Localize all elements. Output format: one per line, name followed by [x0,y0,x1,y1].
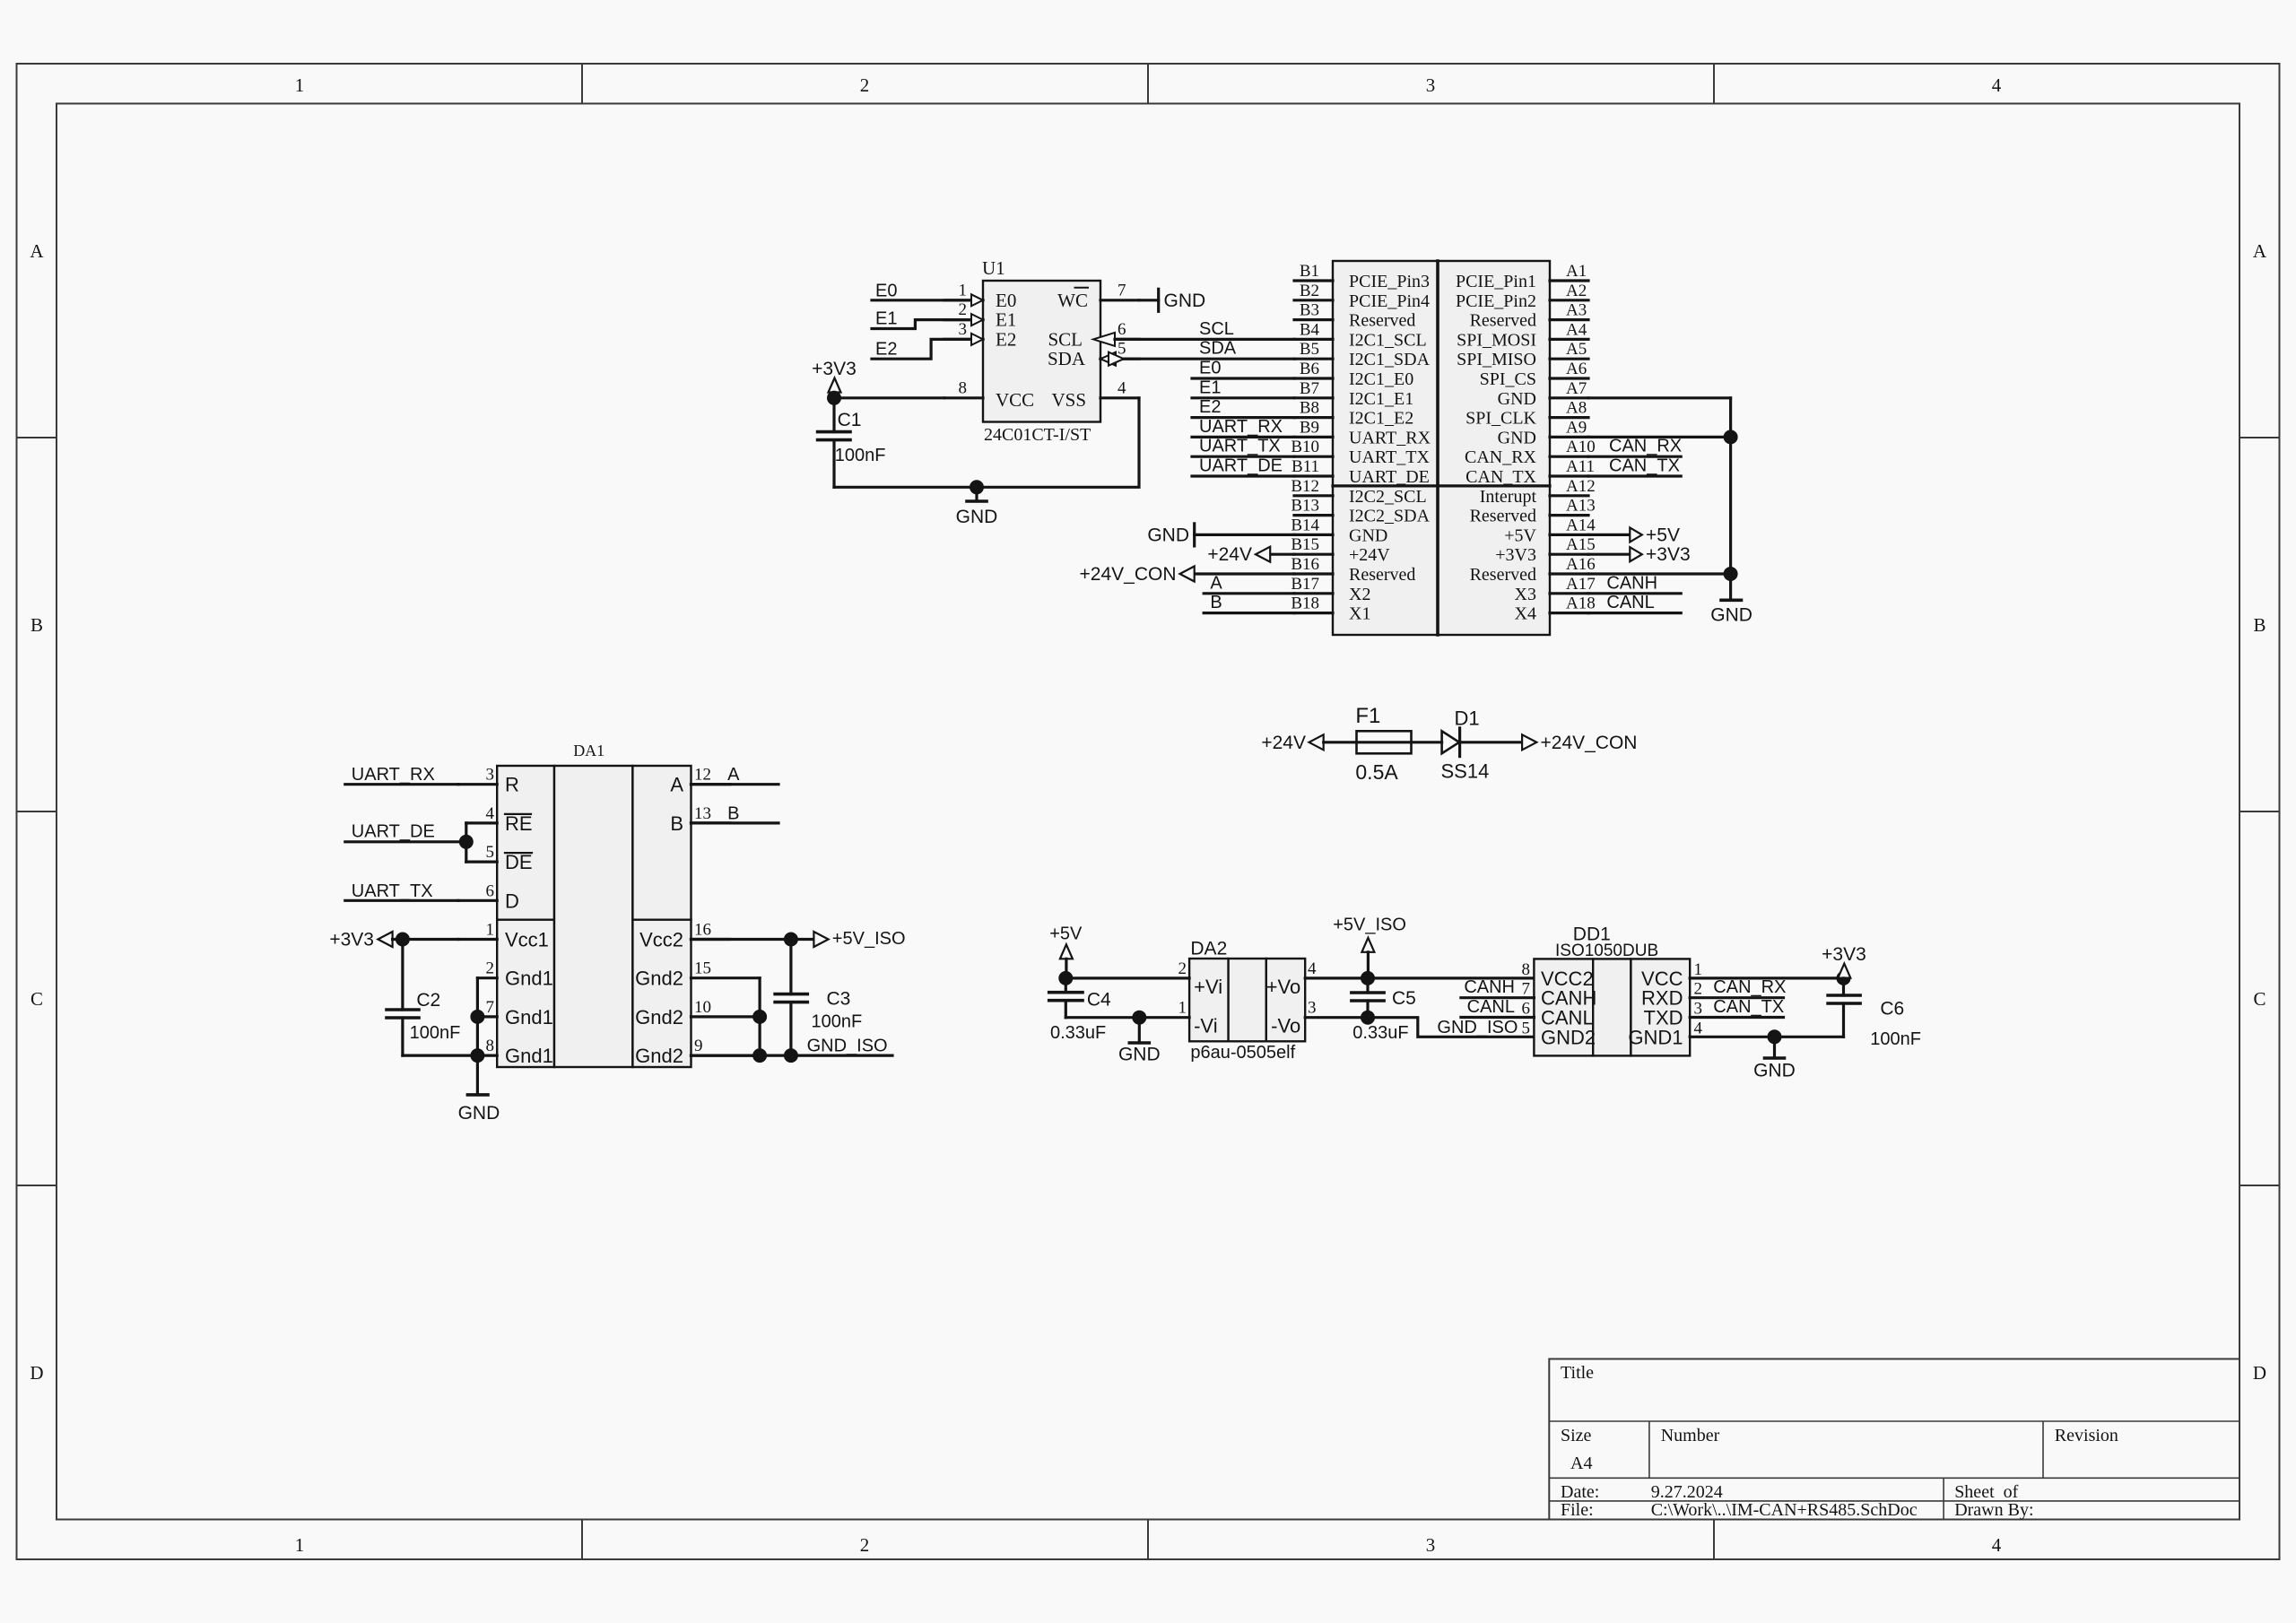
svg-text:SDA: SDA [1199,339,1237,359]
DA1 pin name Vcc2 [639,929,683,951]
connector pin A16 [1470,555,1596,585]
wire UART_DE to DA1 pins 4/5 [345,823,466,862]
svg-text:100nF: 100nF [410,1023,461,1043]
C1 designator [838,410,862,430]
IC DD1 body middle column [1593,959,1631,1055]
C6 designator [1880,999,1904,1020]
svg-text:B14: B14 [1291,516,1319,534]
power port +5V_ISO (DA2 output) [1333,916,1406,978]
U1 pin 5 (SDA) [1100,340,1139,366]
wire A from DA1 pin 12 [691,783,779,785]
svg-text:C: C [2253,988,2266,1010]
svg-text:D1: D1 [1455,707,1480,730]
svg-text:4: 4 [1694,1019,1703,1037]
junction dot C5/+5V_ISO [1361,971,1375,985]
svg-text:4: 4 [1118,378,1126,397]
svg-text:GND: GND [1753,1061,1796,1081]
svg-text:+24V: +24V [1207,544,1252,565]
U1 pin 6 (SCL) [1093,320,1139,346]
svg-text:UART_RX: UART_RX [352,765,435,785]
svg-text:A17: A17 [1566,575,1596,594]
wire U1 VSS to ground rail [834,398,1139,488]
DA1 designator [573,742,604,759]
svg-text:WC: WC [1057,290,1088,311]
U1 pin 2 (E1) [944,300,983,325]
capacitor C5 [1352,978,1384,1018]
svg-text:8: 8 [1522,960,1531,979]
svg-text:+3V3: +3V3 [1822,944,1866,965]
capacitor C4 [1049,978,1083,1018]
wire E2 to B8 [1192,416,1294,419]
net label UART_RX (DA1) [352,765,435,785]
svg-text:1: 1 [295,1534,305,1556]
svg-text:UART_TX: UART_TX [352,881,433,901]
svg-text:X2: X2 [1349,585,1370,604]
svg-text:B18: B18 [1291,595,1319,613]
svg-text:PCIE_Pin2: PCIE_Pin2 [1456,291,1536,311]
svg-text:3: 3 [1308,999,1317,1018]
net label CAN_TX (A11) [1609,456,1680,476]
U1 pin name SDA [1048,348,1086,369]
svg-text:8: 8 [486,1037,495,1055]
svg-text:D: D [30,1362,43,1384]
svg-text:4: 4 [486,804,495,823]
svg-text:CANH: CANH [1464,977,1515,997]
svg-text:I2C2_SDA: I2C2_SDA [1349,507,1431,526]
svg-text:2: 2 [959,300,968,319]
connector pin B14 [1291,516,1387,545]
svg-text:E0: E0 [875,281,897,300]
DA1 pin 3 [458,766,497,785]
svg-text:Reserved: Reserved [1470,311,1536,331]
svg-text:B1: B1 [1300,262,1319,281]
connector pin B13 [1291,497,1430,526]
svg-text:4: 4 [1992,1534,2002,1556]
svg-text:DA1: DA1 [573,742,604,759]
svg-text:E1: E1 [875,309,897,329]
wire +24V to F1 [1324,741,1357,743]
DA1 pin 6 [458,881,497,900]
svg-text:RE: RE [505,812,533,835]
wire F1 to D1 [1412,741,1442,743]
diode D1 [1442,728,1460,757]
junction dot C3/GND_ISO [784,1048,798,1063]
DD1 pin name VCC [1641,968,1683,990]
connector pin B5 [1294,340,1431,369]
DA1 pin 5 [466,843,497,862]
IC DA2 body right column [1266,959,1305,1041]
connector pin A13 [1470,497,1596,526]
wire C4 to DA2 -Vi [1065,1016,1189,1019]
svg-text:Sheet of: Sheet of [1954,1482,2018,1502]
svg-text:Size: Size [1561,1426,1592,1445]
svg-text:File:: File: [1561,1500,1594,1520]
vertical GND bus wire [1729,398,1732,574]
junction dot +3V3/C6 [1837,971,1851,985]
svg-text:Revision: Revision [2055,1426,2118,1445]
DD1 pin 8 [1522,960,1531,979]
wire A16 to bus [1588,572,1731,575]
ground symbol GND (DA2) [1118,1018,1161,1065]
D1 designator [1455,707,1480,730]
connector pin B12 [1291,477,1426,507]
svg-text:CAN_RX: CAN_RX [1465,447,1537,467]
DA2 pin 1 (-Vi) [1178,999,1187,1018]
DA1 pin name D [505,890,519,912]
svg-text:100nF: 100nF [812,1012,863,1032]
svg-text:X3: X3 [1515,585,1536,604]
power port +24V_CON at B16 [1080,564,1294,585]
connector pin B8 [1294,399,1413,429]
svg-text:SCL: SCL [1199,319,1234,339]
svg-text:GND: GND [1118,1044,1161,1064]
svg-text:GND: GND [1147,525,1189,545]
DD1 pin 6 [1522,1000,1531,1019]
connector pin B2 [1294,282,1430,311]
svg-text:100nF: 100nF [1870,1029,1921,1049]
net label UART_RX [1199,417,1283,437]
svg-text:+5V_ISO: +5V_ISO [1333,916,1406,935]
svg-text:B17: B17 [1291,575,1319,594]
junction dot Gnd2 pin10 [752,1010,767,1024]
power port +5V at A14 [1588,525,1680,545]
wire E1 to U1 pin 2 [872,320,970,329]
DA1 pin name Vcc1 [505,929,549,951]
svg-text:Date:: Date: [1561,1482,1599,1502]
svg-text:D: D [2253,1362,2266,1384]
connector pin A9 [1498,418,1588,447]
DA1 pin 10 [691,998,761,1017]
wire E1 to B7 [1192,396,1294,399]
svg-text:0.33uF: 0.33uF [1050,1023,1106,1043]
svg-text:A14: A14 [1566,516,1596,534]
DA1 pin 13 [691,804,730,823]
DA1 pin 15 [691,959,761,978]
svg-text:+24V: +24V [1349,545,1390,565]
wire B to B18 [1204,612,1294,614]
svg-text:CANL: CANL [1467,997,1515,1017]
D1 value SS14 [1441,759,1490,782]
DD1 pin name VCC2 [1541,968,1594,990]
svg-text:A4: A4 [1566,320,1587,339]
C3 designator [827,989,851,1010]
svg-text:2: 2 [1178,959,1187,978]
svg-text:Reserved: Reserved [1349,311,1415,331]
IC DA2 body middle column [1229,959,1266,1041]
svg-text:B6: B6 [1300,360,1319,378]
DA2 pin 2 (+Vi) [1178,959,1187,978]
DA1 pin 16 [691,921,730,940]
svg-text:I2C1_E0: I2C1_E0 [1349,369,1413,389]
F1 value 0.5A [1355,760,1398,784]
svg-text:3: 3 [1426,74,1436,96]
svg-text:4: 4 [1308,959,1317,978]
ground symbol GND (connector bus) [1710,574,1752,626]
svg-text:+5V: +5V [1504,525,1536,545]
junction dot Gnd1 pin8 [470,1048,484,1063]
junction dot GND rail [970,480,984,494]
connector pin B10 [1291,438,1430,467]
svg-text:UART_DE: UART_DE [352,821,435,841]
svg-text:GND: GND [1164,291,1206,311]
svg-text:A: A [30,240,44,262]
connector pin B15 [1291,535,1390,565]
connector pin A18 [1515,595,1596,624]
wire CANH to DD1 pin 7 [1461,996,1535,999]
connector pin B11 [1291,457,1430,487]
wire SCL U1 pin6 to B4 [1115,338,1294,341]
zone tick marks top/bottom [582,64,1714,1559]
svg-text:6: 6 [486,881,495,900]
svg-text:B8: B8 [1300,399,1319,418]
DA1 pin name Gnd1 [505,968,553,990]
svg-text:DA2: DA2 [1190,939,1227,959]
net label E1 (U1 input) [875,309,897,329]
IC DA2 body left column [1189,959,1229,1041]
connector pin A6 [1480,360,1588,389]
DA1 pin name R [505,774,519,796]
svg-text:SPI_MOSI: SPI_MOSI [1457,330,1536,350]
wire A to B17 [1204,592,1294,595]
wire A7 GND to bus [1588,396,1731,399]
svg-text:D: D [505,890,519,912]
wire A9 GND to bus [1588,436,1731,438]
svg-text:A2: A2 [1566,282,1587,300]
svg-text:100nF: 100nF [835,446,886,465]
svg-text:UART_DE: UART_DE [1349,467,1430,487]
svg-text:B10: B10 [1291,438,1319,456]
svg-text:3: 3 [1426,1534,1436,1556]
connector pin A7 [1498,379,1588,409]
power port +3V3 (DA1 Vcc1) [329,930,458,950]
DA2 pin name -Vi [1194,1015,1218,1037]
svg-text:+Vi: +Vi [1194,976,1222,998]
svg-text:Vcc2: Vcc2 [639,929,683,951]
Gnd2 bracket wire [758,978,761,1055]
wire E2 to U1 pin 3 [872,339,970,359]
U1 pin 1 (E0) [944,281,983,306]
junction dot C4/+5V [1058,971,1073,985]
net label UART_TX [1199,437,1281,456]
DA1 pin 7 [477,998,497,1017]
DA1 pin name Gnd2 [635,1045,683,1067]
svg-text:GND_ISO: GND_ISO [807,1037,888,1056]
C1 value 100nF [835,446,886,465]
svg-text:GND: GND [1498,389,1536,409]
connector pin B9 [1294,418,1431,447]
svg-text:+5V: +5V [1646,525,1680,545]
svg-text:A4: A4 [1570,1454,1592,1473]
svg-text:PCIE_Pin1: PCIE_Pin1 [1456,272,1536,291]
DA1 pin name Gnd1 [505,1006,553,1028]
wire DA2 -Vo to DD1 GND2 [1305,1018,1534,1037]
svg-text:1: 1 [1694,960,1703,979]
svg-text:+3V3: +3V3 [1646,544,1691,565]
U1 pin name WC with overline [1057,288,1088,311]
connector pin A17 [1515,575,1596,604]
svg-text:A7: A7 [1566,379,1587,398]
svg-text:5: 5 [486,843,495,862]
C3 value 100nF [812,1012,863,1032]
svg-text:24C01CT-I/ST: 24C01CT-I/ST [984,425,1091,445]
DD1 pin 3 [1694,1000,1703,1019]
svg-text:GND: GND [458,1103,500,1124]
power port +24V (fuse input) [1261,733,1323,753]
svg-text:6: 6 [1522,1000,1531,1019]
ground symbol GND (U1/C1) [956,487,998,527]
zone row labels A-D right [2253,240,2267,1384]
title block [1549,1359,2239,1521]
wire CAN_TX from DD1 pin 3 [1690,1016,1783,1019]
DA1 pin 4 [466,804,497,823]
power port +5V_ISO (DA1) [813,929,905,949]
svg-text:CANH: CANH [1606,573,1657,593]
svg-text:C3: C3 [827,989,851,1010]
net label CANH (A17) [1606,573,1657,593]
net label B (DA1) [727,803,739,823]
wire CAN_RX from DD1 pin 2 [1690,996,1783,999]
DD1 pin name TXD [1644,1007,1683,1029]
net label SDA [1199,339,1237,359]
wire +5V to DA2 +Vi [1065,976,1189,979]
svg-text:A10: A10 [1566,438,1596,456]
svg-text:-Vi: -Vi [1194,1015,1218,1037]
svg-text:Gnd1: Gnd1 [505,1006,553,1028]
svg-text:Drawn By:: Drawn By: [1954,1500,2033,1520]
svg-text:3: 3 [1694,1000,1703,1019]
power port GND at U1 pin 7 [1139,289,1205,311]
svg-text:Gnd1: Gnd1 [505,1045,553,1067]
connector X1 left (B) column body [1333,261,1438,635]
capacitor C3 [775,940,807,1056]
C4 designator [1087,990,1111,1011]
connector pin A5 [1457,340,1588,369]
U1 pin 3 (E2) [944,320,983,345]
DA1 pin name DE with overline [505,851,533,873]
svg-text:CAN_TX: CAN_TX [1609,456,1680,476]
svg-text:B11: B11 [1291,457,1319,476]
svg-text:7: 7 [486,998,495,1017]
svg-text:E1: E1 [1199,378,1221,397]
junction dot C2/Vcc1 [396,933,410,947]
svg-text:C4: C4 [1087,990,1111,1011]
svg-text:Reserved: Reserved [1470,565,1536,585]
DA2 pin 4 (+Vo) [1308,959,1317,978]
capacitor C2 [387,940,419,1056]
net label CAN_TX (DD1) [1713,997,1784,1017]
connector X1 right (A) column body [1438,261,1550,635]
net label UART_TX (DA1) [352,881,433,901]
DA1 pin name A [670,774,683,796]
svg-text:+Vo: +Vo [1266,976,1301,998]
wire DD1 VCC to +3V3 [1690,976,1843,979]
svg-text:1: 1 [486,921,495,940]
DD1 pin 2 [1694,980,1703,999]
svg-text:GND: GND [1349,525,1387,545]
svg-text:A: A [670,774,683,796]
U1 pin name VCC [996,389,1034,411]
svg-text:A18: A18 [1566,595,1596,613]
connector X1 center divider [1436,261,1439,635]
connector pin B6 [1294,360,1413,389]
power port +3V3 (DD1) [1822,944,1866,978]
svg-text:GND: GND [1498,428,1536,447]
DA2 pin name +Vi [1194,976,1222,998]
svg-text:I2C1_E1: I2C1_E1 [1349,389,1413,409]
power port +3V3 (U1 VCC) [812,359,857,398]
junction dot C5/GND_ISO [1361,1011,1375,1025]
connector pin A4 [1457,320,1588,350]
svg-text:SPI_CS: SPI_CS [1480,369,1536,389]
power port GND at B14 [1147,524,1294,546]
net label GND_ISO (DD1) [1437,1018,1518,1037]
connector X1 section divider [1333,484,1550,487]
svg-text:CAN_TX: CAN_TX [1713,997,1784,1017]
net label UART_DE [1199,456,1283,476]
svg-text:I2C2_SCL: I2C2_SCL [1349,487,1427,507]
net label E0 [1199,359,1221,378]
C4 value 0.33uF [1050,1023,1106,1043]
svg-text:0.33uF: 0.33uF [1352,1023,1408,1043]
svg-text:C5: C5 [1392,988,1416,1009]
net label CAN_RX (A10) [1609,437,1682,456]
net label UART_DE (DA1) [352,821,435,841]
svg-text:A6: A6 [1566,360,1587,378]
junction dot A16/bus [1724,567,1738,581]
svg-text:UART_RX: UART_RX [1199,417,1283,437]
connector pin B18 [1291,595,1370,624]
U1 pin 8 (VCC) [944,378,983,398]
F1 designator [1355,704,1380,728]
svg-text:Interupt: Interupt [1480,487,1537,507]
capacitor C6 [1828,978,1860,1037]
DD1 pin name RXD [1641,987,1683,1010]
svg-text:Reserved: Reserved [1349,565,1415,585]
svg-text:15: 15 [694,959,711,978]
svg-text:B12: B12 [1291,477,1319,496]
C2 value 100nF [410,1023,461,1043]
power port +24V at B15 [1207,544,1294,565]
svg-text:C6: C6 [1880,999,1904,1020]
svg-text:A: A [1210,573,1222,593]
svg-text:-Vo: -Vo [1271,1015,1300,1037]
DD1 pin 7 [1522,980,1531,999]
DA1 pin 12 [691,766,730,785]
svg-text:12: 12 [694,766,711,785]
svg-text:B: B [727,803,739,823]
svg-text:+3V3: +3V3 [1495,545,1536,565]
svg-text:SS14: SS14 [1441,759,1490,782]
svg-text:B: B [1210,593,1222,612]
svg-text:E0: E0 [1199,359,1221,378]
junction dot GND/GND1 [1768,1029,1782,1044]
IC DA1 body right column [632,766,691,1067]
svg-text:B5: B5 [1300,340,1319,359]
net label E0 (U1 input) [875,281,897,300]
connector pin B3 [1294,301,1415,331]
svg-text:DE: DE [505,851,533,873]
svg-text:A15: A15 [1566,535,1596,554]
svg-text:A12: A12 [1566,477,1596,496]
svg-text:Gnd2: Gnd2 [635,968,683,990]
wire SDA U1 pin5 to B5 [1124,358,1294,360]
U1 pin 7 (WC) [1100,281,1139,300]
junction dot Gnd2 pin9 [752,1048,767,1063]
svg-text:F1: F1 [1355,704,1380,728]
net label A (DA1) [727,765,740,785]
net label B (B18) [1210,593,1222,612]
svg-text:Gnd2: Gnd2 [635,1006,683,1028]
